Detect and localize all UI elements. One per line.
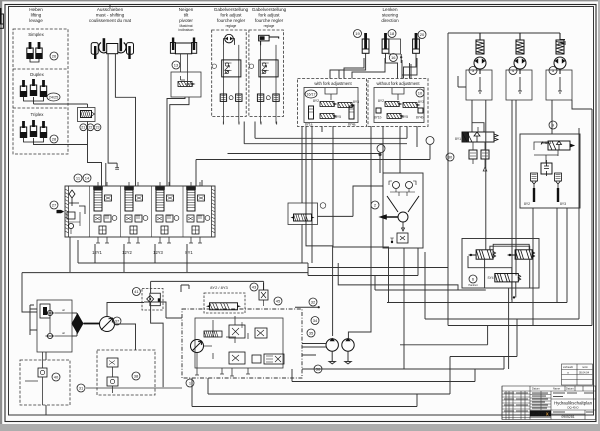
svg-text:tilt: tilt — [184, 13, 189, 18]
svg-text:05.04.04: 05.04.04 — [579, 370, 590, 374]
svg-text:8Y3: 8Y3 — [353, 100, 359, 104]
svg-text:vorbearb: vorbearb — [563, 365, 574, 369]
svg-text:coulissement du mat: coulissement du mat — [89, 18, 132, 23]
svg-text:18: 18 — [390, 31, 395, 36]
svg-text:38: 38 — [134, 374, 139, 379]
svg-text:Simplex: Simplex — [28, 32, 44, 37]
svg-text:35: 35 — [309, 331, 314, 336]
svg-text:45: 45 — [276, 299, 281, 304]
svg-text:8Y3: 8Y3 — [560, 202, 566, 206]
svg-text:Lenken: Lenken — [382, 7, 398, 12]
svg-text:Ausschieben: Ausschieben — [97, 7, 124, 12]
svg-text:fork adjust: fork adjust — [220, 13, 242, 18]
svg-text:steering: steering — [382, 13, 399, 18]
svg-text:19: 19 — [355, 31, 360, 36]
svg-text:Gabelverstellung: Gabelverstellung — [252, 7, 287, 12]
svg-text:with fork adjustment: with fork adjustment — [314, 81, 352, 86]
svg-text:Datum: Datum — [566, 387, 574, 391]
svg-text:26: 26 — [52, 54, 57, 59]
svg-text:oil: oil — [62, 331, 65, 335]
svg-text:8Y4b: 8Y4b — [416, 116, 424, 120]
svg-text:lifting: lifting — [31, 13, 42, 18]
svg-text:Neigen: Neigen — [179, 7, 194, 12]
svg-text:8Y5: 8Y5 — [335, 115, 341, 119]
svg-text:12Y1: 12Y1 — [92, 250, 102, 255]
svg-text:Datum: Datum — [532, 387, 540, 391]
svg-text:8Y2 / 8Y3: 8Y2 / 8Y3 — [210, 285, 228, 290]
svg-text:30: 30 — [448, 155, 453, 160]
svg-text:10: 10 — [418, 91, 423, 96]
svg-text:8Y2: 8Y2 — [313, 99, 319, 103]
svg-text:8Y1: 8Y1 — [455, 137, 461, 141]
svg-text:43: 43 — [252, 285, 257, 290]
svg-text:inclinaison: inclinaison — [179, 28, 194, 32]
svg-text:reglage: reglage — [264, 24, 275, 28]
svg-text:levage: levage — [29, 18, 43, 23]
svg-text:8Y1a: 8Y1a — [305, 123, 313, 127]
svg-text:mast - shifting: mast - shifting — [96, 13, 125, 18]
svg-text:norm: norm — [582, 365, 588, 369]
svg-text:8Y1b: 8Y1b — [374, 116, 382, 120]
svg-text:DQ 45-D: DQ 45-D — [567, 406, 578, 410]
svg-text:SY4: SY4 — [487, 276, 493, 280]
svg-text:14: 14 — [85, 176, 90, 181]
svg-text:Gabelverstellung: Gabelverstellung — [214, 7, 249, 12]
svg-text:32: 32 — [311, 300, 316, 305]
svg-text:fourche regler: fourche regler — [217, 18, 246, 23]
svg-text:24/25: 24/25 — [49, 96, 59, 100]
svg-text:27: 27 — [52, 203, 57, 208]
svg-text:pivoter: pivoter — [179, 18, 193, 23]
svg-text:31: 31 — [79, 386, 84, 391]
svg-text:13: 13 — [174, 63, 179, 68]
svg-text:fourche regler: fourche regler — [255, 18, 284, 23]
svg-text:fork adjust: fork adjust — [258, 13, 280, 18]
svg-text:oil: oil — [62, 308, 65, 312]
svg-text:Heben: Heben — [29, 7, 43, 12]
svg-text:21: 21 — [81, 126, 85, 130]
svg-text:without fork adjustment: without fork adjustment — [376, 81, 420, 86]
svg-text:20: 20 — [420, 32, 425, 37]
svg-text:8Y5: 8Y5 — [402, 115, 408, 119]
svg-text:41: 41 — [134, 289, 139, 294]
svg-text:reglage: reglage — [226, 24, 237, 28]
svg-text:8Y1: 8Y1 — [185, 250, 193, 255]
svg-text:23: 23 — [96, 126, 100, 130]
svg-text:40: 40 — [54, 375, 59, 380]
svg-text:Name: Name — [553, 387, 560, 391]
svg-text:8Y2: 8Y2 — [378, 99, 384, 103]
svg-text:8Y2: 8Y2 — [524, 202, 530, 206]
svg-text:37: 37 — [115, 319, 120, 324]
svg-text:HUBTEX: HUBTEX — [531, 412, 548, 417]
svg-text:Duplex: Duplex — [30, 72, 44, 77]
svg-text:34: 34 — [313, 318, 318, 323]
svg-text:Handnot: Handnot — [468, 284, 477, 287]
svg-text:16: 16 — [391, 55, 396, 60]
svg-text:0905281: 0905281 — [561, 415, 574, 419]
svg-text:16/17: 16/17 — [307, 93, 316, 97]
svg-text:Triplex: Triplex — [30, 112, 44, 117]
svg-text:28: 28 — [52, 137, 57, 142]
svg-text:22: 22 — [88, 126, 92, 130]
svg-text:direction: direction — [381, 18, 399, 23]
svg-text:8Y3: 8Y3 — [418, 100, 424, 104]
svg-text:8Y4a: 8Y4a — [348, 123, 356, 127]
